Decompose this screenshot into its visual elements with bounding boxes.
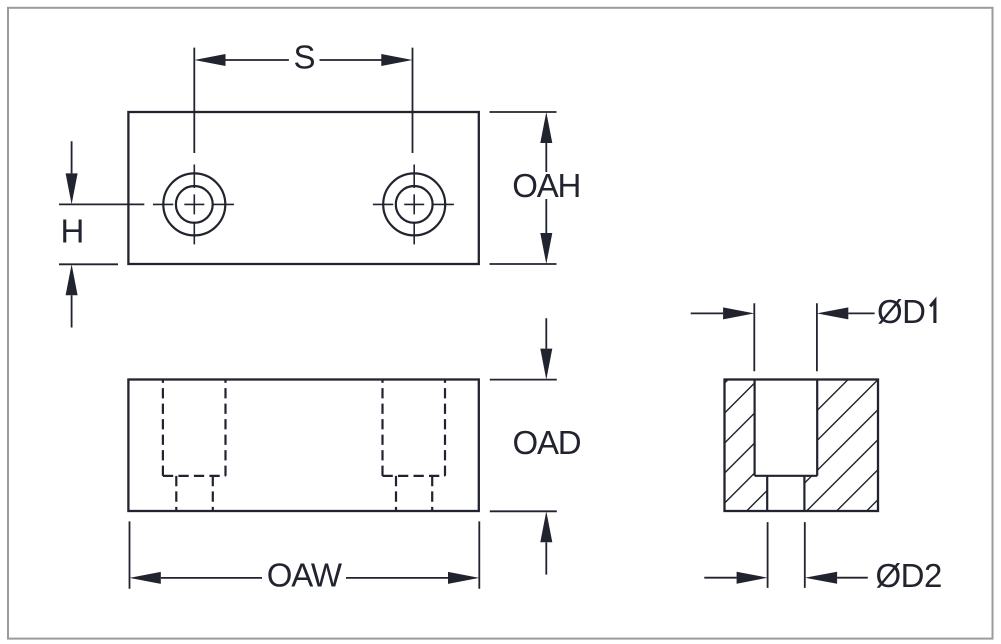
svg-text:OAD: OAD: [513, 424, 581, 461]
svg-text:OAH: OAH: [512, 167, 580, 204]
svg-text:ØD2: ØD2: [876, 557, 942, 594]
svg-text:S: S: [293, 38, 315, 75]
svg-text:ØD: ØD: [877, 293, 926, 330]
svg-text:H: H: [60, 213, 84, 250]
svg-text:OAW: OAW: [267, 557, 343, 594]
